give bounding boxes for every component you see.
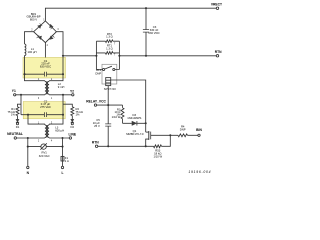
relay RL1 bbox=[95, 64, 119, 91]
svg-text:1/10 W: 1/10 W bbox=[112, 115, 121, 119]
svg-text:DNP: DNP bbox=[180, 128, 186, 132]
wire relay coil to Q1 drain bbox=[111, 80, 146, 132]
wire relay coil to RELAY_VCC bbox=[107, 86, 109, 106]
svg-text:1/10 W: 1/10 W bbox=[153, 155, 162, 159]
terminal RTN bbox=[215, 50, 222, 57]
resistor R4 bbox=[170, 124, 198, 136]
svg-text:1.3 Ω: 1.3 Ω bbox=[106, 47, 113, 51]
wire bridge right vertex down to RTN rail and C1 bbox=[49, 32, 63, 81]
bridge rectifier BR1 GBU8H-BP diamond bbox=[31, 19, 59, 47]
varistor RV1 bbox=[27, 143, 64, 158]
svg-text:100 µH: 100 µH bbox=[28, 50, 37, 54]
svg-text:D1: D1 bbox=[16, 125, 20, 129]
capacitor C5 bbox=[93, 105, 111, 146]
wire RTN to R53 bbox=[98, 145, 154, 147]
svg-text:1 A: 1 A bbox=[65, 159, 69, 163]
svg-text:1.3 Ω: 1.3 Ω bbox=[106, 35, 113, 39]
thermistor RT2 bbox=[96, 32, 119, 46]
terminal NEUTRAL bbox=[7, 132, 23, 139]
svg-text:800 V: 800 V bbox=[30, 18, 37, 22]
node bridge riser / RTN rail bbox=[62, 55, 64, 57]
svg-text:MMBF170-7-F: MMBF170-7-F bbox=[126, 132, 144, 136]
node RT block right bbox=[118, 55, 120, 57]
inductor L1 bbox=[25, 44, 26, 56]
svg-text:1N4148WS: 1N4148WS bbox=[127, 116, 141, 120]
svg-text:Y2: Y2 bbox=[70, 90, 74, 94]
highlight box around C2 bbox=[23, 102, 65, 119]
svg-text:600 µH: 600 µH bbox=[55, 129, 64, 133]
terminal L bbox=[61, 161, 63, 175]
svg-text:RTN: RTN bbox=[215, 50, 222, 54]
node RT block left bbox=[95, 55, 97, 57]
wire RELAY_VCC to R3 bbox=[97, 104, 123, 106]
svg-text:RELAY_VCC: RELAY_VCC bbox=[86, 99, 106, 103]
transformer L2 common-mode choke bbox=[38, 79, 65, 100]
wire Y1 to L2 bbox=[16, 94, 45, 96]
svg-text:SPST NO: SPST NO bbox=[104, 87, 116, 91]
resistor R53 bbox=[153, 135, 170, 158]
fuse F1 bbox=[61, 138, 69, 163]
node neutral branch bbox=[27, 137, 29, 139]
wire Y2 node down bbox=[62, 95, 64, 115]
node C5 / RTN wire bbox=[107, 145, 109, 147]
node Q1 source / RTN wire bbox=[145, 145, 147, 147]
terminal Y2 bbox=[70, 90, 74, 96]
capacitor C3 bbox=[143, 8, 160, 56]
svg-text:275 VAC: 275 VAC bbox=[40, 105, 51, 109]
node D3 / drain bbox=[145, 122, 147, 124]
svg-text:19196-004: 19196-004 bbox=[188, 170, 211, 174]
thermistor RT1 bbox=[96, 44, 119, 57]
svg-text:BIN: BIN bbox=[196, 128, 202, 132]
svg-text:630 VDC: 630 VDC bbox=[40, 64, 51, 68]
node line branch bbox=[61, 137, 63, 139]
wire Y1 node down bbox=[20, 95, 22, 115]
wire top rail to VRECT bbox=[45, 8, 216, 21]
svg-text:RTN: RTN bbox=[92, 141, 99, 145]
svg-text:NEUTRAL: NEUTRAL bbox=[7, 132, 23, 136]
terminal BIN bbox=[196, 128, 202, 136]
node coil/VCC bbox=[107, 104, 109, 106]
svg-text:Y1: Y1 bbox=[12, 89, 16, 93]
terminal N bbox=[27, 138, 30, 175]
svg-text:1%: 1% bbox=[76, 113, 81, 117]
terminal VRECT bbox=[211, 3, 222, 10]
highlight box around C1 bbox=[23, 57, 66, 78]
wire L1 to C1 node bbox=[25, 56, 45, 81]
svg-text:9 mH: 9 mH bbox=[58, 85, 65, 89]
capacitor C1 bbox=[23, 59, 64, 77]
diode D2 bbox=[71, 119, 75, 129]
wire bridge bottom stub bbox=[44, 43, 46, 58]
capacitor C2 bbox=[21, 99, 64, 117]
svg-text:LINE: LINE bbox=[69, 132, 77, 136]
node gate / R53 / R4 bbox=[169, 134, 171, 136]
svg-text:630 VDC: 630 VDC bbox=[148, 31, 159, 35]
svg-text:VRECT: VRECT bbox=[211, 3, 222, 7]
wire NEUTRAL to L3 bbox=[17, 137, 45, 139]
terminal RTN bottom bbox=[92, 141, 99, 148]
node RTN / C3 bbox=[145, 55, 147, 57]
wire bridge left vertex to L1 bbox=[25, 32, 34, 44]
resistor R3 bbox=[112, 105, 124, 123]
resistor R2 bbox=[63, 104, 83, 119]
label BR1 bbox=[26, 12, 40, 22]
transformer L3 common-mode choke bbox=[28, 115, 64, 143]
resistor R1 bbox=[8, 104, 21, 119]
terminal RELAY_VCC bbox=[86, 99, 106, 106]
wire RT block verticals bbox=[96, 41, 119, 69]
svg-text:25 V: 25 V bbox=[94, 124, 100, 128]
wire RTN rail bbox=[63, 55, 216, 57]
node junction top rail / C3 bbox=[145, 7, 147, 9]
svg-text:DNP: DNP bbox=[95, 71, 101, 75]
node Y2 branch bbox=[62, 94, 64, 96]
terminal Y1 bbox=[12, 89, 16, 96]
terminal LINE bbox=[69, 132, 77, 139]
svg-text:320 VAC: 320 VAC bbox=[39, 154, 50, 158]
node Y1 branch bbox=[20, 94, 22, 96]
transistor Q1 MOSFET bbox=[126, 129, 170, 146]
wire L3 to LINE bbox=[49, 137, 69, 139]
wire L2 to Y2 bbox=[49, 94, 72, 96]
svg-text:L: L bbox=[61, 171, 63, 175]
diode D3 bbox=[123, 113, 146, 126]
svg-text:1%: 1% bbox=[11, 113, 16, 117]
svg-text:D2: D2 bbox=[71, 125, 75, 129]
diode D1 bbox=[16, 119, 20, 129]
